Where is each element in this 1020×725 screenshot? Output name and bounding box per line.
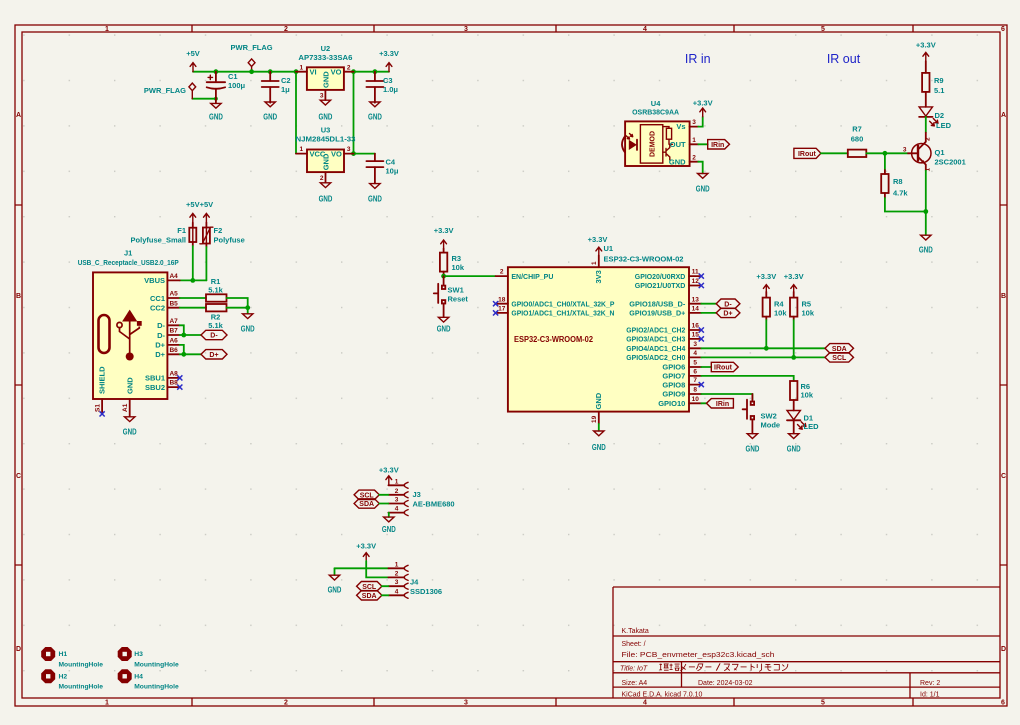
svg-text:4: 4 <box>643 700 647 707</box>
pin A5 CC1 <box>167 297 179 299</box>
ground below U4 <box>696 174 710 194</box>
svg-text:+3.3V: +3.3V <box>916 41 936 50</box>
pin 6 GPIO7 <box>689 375 701 377</box>
svg-text:GND: GND <box>263 113 277 122</box>
pin 2 EN/CHIP_PU <box>496 275 508 277</box>
svg-text:3: 3 <box>692 119 696 126</box>
svg-text:GND: GND <box>787 445 801 454</box>
svg-text:SBU1: SBU1 <box>145 374 165 383</box>
wire IRout label to R7 <box>821 152 848 154</box>
pin 3 GND <box>324 90 326 100</box>
no-connect X GPIO0 <box>493 301 498 306</box>
pin 2 GND <box>690 161 699 163</box>
svg-text:5.1k: 5.1k <box>208 285 223 294</box>
global label SCL (esp side) <box>825 353 854 362</box>
svg-text:GND: GND <box>746 445 760 454</box>
wire R4 down to SDA <box>765 320 767 348</box>
svg-text:VI: VI <box>310 68 317 77</box>
global label SCL (J4) <box>357 582 382 591</box>
CONNECTORS <box>328 466 455 601</box>
POWER <box>144 43 399 204</box>
power symbol +3.3V above R9 <box>916 41 936 62</box>
svg-text:IRin: IRin <box>711 142 724 149</box>
svg-text:LED: LED <box>936 121 952 130</box>
svg-text:GPIO7: GPIO7 <box>662 372 685 381</box>
svg-text:LED: LED <box>804 422 820 431</box>
pin 3 VO <box>344 153 354 155</box>
wire GPIO6 to IRout label <box>701 366 711 368</box>
svg-text:GPIO6: GPIO6 <box>662 363 685 372</box>
svg-text:+3.3V: +3.3V <box>379 49 399 58</box>
svg-text:D-: D- <box>724 301 732 308</box>
wire vertical to U3 VCC <box>295 72 297 154</box>
svg-text:GND: GND <box>209 113 223 122</box>
left ticks <box>15 205 22 565</box>
connector J1 USB_C_Receptacle_USB2.0_16P <box>78 249 183 417</box>
svg-text:1: 1 <box>395 561 399 568</box>
pin S1 SHIELD bottom <box>101 399 103 414</box>
svg-text:SCL: SCL <box>832 355 847 362</box>
svg-text:+5V: +5V <box>186 200 200 209</box>
power flag PWR_FLAG top <box>231 43 273 72</box>
global label D- (esp side) <box>716 299 740 308</box>
svg-text:12: 12 <box>692 278 700 285</box>
svg-text:GPIO2/ADC1_CH2: GPIO2/ADC1_CH2 <box>626 326 685 335</box>
pin 1 VI <box>296 71 307 73</box>
svg-text:H4: H4 <box>134 674 143 681</box>
svg-text:680: 680 <box>851 135 864 144</box>
pin 18 GPIO0 <box>496 303 508 305</box>
power symbol +5V above F2 <box>200 200 214 223</box>
global label SDA (J3) <box>354 499 379 508</box>
katakana コ <box>774 664 780 670</box>
wire VBUS <box>180 279 207 281</box>
svg-text:3V3: 3V3 <box>594 270 603 283</box>
pin B5 CC2 <box>167 307 179 309</box>
wire +3.3V down to J4 pin2 <box>366 561 388 577</box>
pin 1 <box>388 484 404 486</box>
svg-text:3: 3 <box>903 146 907 153</box>
svg-text:GND: GND <box>322 153 331 170</box>
svg-text:3: 3 <box>693 341 697 348</box>
svg-text:ESP32-C3-WROOM-02: ESP32-C3-WROOM-02 <box>514 335 594 344</box>
svg-text:Id: 1/1: Id: 1/1 <box>920 692 940 699</box>
junction R3/EN/SW1 <box>441 274 446 279</box>
svg-text:+5V: +5V <box>200 200 214 209</box>
svg-text:5.1k: 5.1k <box>208 321 223 330</box>
wire D+ A6 to B6 <box>180 345 201 354</box>
regulator U2 <box>296 44 354 100</box>
svg-text:File: PCB_envmeter_esp32c3.kic: File: PCB_envmeter_esp32c3.kicad_sch <box>622 652 775 659</box>
resistor R2 <box>206 304 227 330</box>
no-connect X on SBU2 <box>177 385 182 390</box>
svg-text:+3.3V: +3.3V <box>784 272 804 281</box>
pin 17 GPIO1 <box>496 312 508 314</box>
wire CC2 to R2 <box>180 307 206 309</box>
svg-text:2: 2 <box>925 137 932 141</box>
svg-text:IRout: IRout <box>798 151 817 158</box>
svg-text:Date: 2024-03-02: Date: 2024-03-02 <box>698 680 753 687</box>
svg-text:3: 3 <box>395 579 399 586</box>
svg-text:R2: R2 <box>211 312 221 321</box>
svg-text:A4: A4 <box>169 273 178 280</box>
IROUT <box>0 0 1 1</box>
pin 12 GPIO21/U0TXD <box>689 285 701 287</box>
pin 5 GPIO6 <box>689 366 701 368</box>
USB <box>78 200 255 437</box>
svg-text:Vs: Vs <box>676 122 685 131</box>
pin 2 GND <box>325 172 327 183</box>
svg-text:J1: J1 <box>124 249 132 258</box>
power symbol +3.3V above J3 <box>379 466 399 486</box>
svg-text:A8: A8 <box>169 371 178 378</box>
wire J4 pin1 to gnd <box>335 567 389 569</box>
wire GPIO19 to D+ <box>701 312 716 314</box>
wire J3 pin4 to gnd <box>388 513 390 517</box>
ground below C2 <box>263 102 277 122</box>
svg-text:1μ: 1μ <box>281 85 290 94</box>
svg-text:19: 19 <box>591 415 598 423</box>
svg-text:GND: GND <box>123 428 137 437</box>
wire GPIO4 to SDA label <box>701 347 825 349</box>
svg-text:5: 5 <box>693 360 697 367</box>
svg-text:R4: R4 <box>774 300 784 309</box>
svg-text:F2: F2 <box>214 226 223 235</box>
svg-text:GPIO8: GPIO8 <box>662 380 685 389</box>
svg-text:B8: B8 <box>169 380 178 387</box>
wire F2 down to VBUS <box>205 247 207 280</box>
resistor R7 <box>848 125 867 158</box>
svg-text:5.1: 5.1 <box>934 86 944 95</box>
pin B6 D+ <box>167 353 179 355</box>
pin B7 D- <box>167 334 179 336</box>
no-connect X on SBU1 <box>177 375 182 380</box>
svg-text:D+: D+ <box>155 350 165 359</box>
slash <box>716 663 720 670</box>
wire vertical U2 VO to U3 VO <box>353 72 355 154</box>
pin 10 GPIO10 <box>689 402 701 404</box>
svg-text:MountingHole: MountingHole <box>59 684 104 691</box>
svg-text:Polyfuse: Polyfuse <box>214 236 245 245</box>
svg-text:1: 1 <box>395 478 399 485</box>
svg-text:GND: GND <box>368 113 382 122</box>
junction D- <box>181 333 186 338</box>
switch SW1 Reset <box>434 276 469 317</box>
junction at C1 gnd node <box>214 97 218 101</box>
pin A7 D- <box>167 324 179 326</box>
fuse F2 <box>200 223 245 248</box>
usb connector stadium glyph <box>99 315 110 353</box>
LED D2 <box>919 107 951 130</box>
wire D- A7 to B7 <box>180 325 201 335</box>
ground below C3 <box>368 102 382 122</box>
pin A6 D+ <box>167 344 179 346</box>
svg-text:H3: H3 <box>134 651 143 658</box>
pin 3 GPIO4/ADC1_CH4 <box>689 347 701 349</box>
svg-text:A: A <box>16 112 21 119</box>
svg-text:GND: GND <box>669 157 686 166</box>
pin 2 <box>388 576 404 578</box>
svg-text:10k: 10k <box>802 308 815 317</box>
global label IRout (esp side) <box>711 362 738 371</box>
junction at +5V/C1 <box>214 69 219 74</box>
svg-text:2: 2 <box>284 26 288 33</box>
svg-text:CC2: CC2 <box>150 304 165 313</box>
svg-text:GND: GND <box>437 325 451 334</box>
svg-text:Title: IoT: Title: IoT <box>620 665 648 672</box>
pin 1 <box>388 567 404 569</box>
pin 3 Vs <box>690 126 699 128</box>
connector J3 AE-BME680 <box>388 478 454 515</box>
svg-text:GND: GND <box>696 185 710 194</box>
capacitor C4 <box>366 154 398 184</box>
svg-text:D-: D- <box>157 331 165 340</box>
svg-text:+3.3V: +3.3V <box>356 542 376 551</box>
svg-text:S1: S1 <box>94 404 101 412</box>
junction at U2 VO <box>351 69 356 74</box>
svg-text:2: 2 <box>395 570 399 577</box>
kanji 環 <box>659 664 668 671</box>
wire U3 VO to C4 <box>354 153 375 155</box>
svg-text:PWR_FLAG: PWR_FLAG <box>144 86 186 95</box>
kanji 境 <box>670 664 680 671</box>
svg-text:D1: D1 <box>804 414 814 423</box>
svg-text:GND: GND <box>241 325 255 334</box>
svg-text:8: 8 <box>693 387 697 394</box>
ground below Q1 <box>919 235 933 254</box>
svg-text:18: 18 <box>498 296 506 303</box>
top ticks <box>192 25 913 32</box>
svg-text:GND: GND <box>319 113 333 122</box>
svg-text:+3.3V: +3.3V <box>756 272 776 281</box>
svg-text:Sheet: /: Sheet: / <box>622 641 646 648</box>
svg-text:6: 6 <box>1001 26 1005 33</box>
svg-text:J3: J3 <box>413 490 421 499</box>
pin 2 <box>388 494 404 496</box>
junction at C3 <box>373 69 378 74</box>
katakana ン <box>782 664 788 671</box>
svg-text:GND: GND <box>919 246 933 255</box>
svg-text:1: 1 <box>299 146 303 153</box>
svg-text:MountingHole: MountingHole <box>134 684 179 691</box>
no-connect X on S1 <box>100 411 105 416</box>
katakana ス <box>724 664 730 671</box>
junction R2/gnd <box>245 305 250 310</box>
pin B8 SBU2 <box>167 386 179 388</box>
junction emitter/R8 <box>923 209 928 214</box>
svg-text:2SC2001: 2SC2001 <box>935 158 966 167</box>
svg-text:D-: D- <box>157 321 165 330</box>
transistor Q1 2SC2001 <box>903 133 966 172</box>
svg-text:B5: B5 <box>169 300 178 307</box>
pin 4 GPIO5/ADC2_CH0 <box>689 356 701 358</box>
wire GPIO5 to SCL label <box>701 356 825 358</box>
global label SDA (J4) <box>357 591 382 600</box>
capacitor C1 <box>207 72 246 99</box>
global label IRin (U4 side) <box>708 140 730 149</box>
power symbol +3.3V above J4 <box>356 542 376 562</box>
svg-text:1: 1 <box>105 700 109 707</box>
svg-text:GPIO19/USB_D+: GPIO19/USB_D+ <box>629 309 686 318</box>
svg-text:SHIELD: SHIELD <box>97 366 106 394</box>
svg-text:1: 1 <box>591 261 598 265</box>
svg-text:1: 1 <box>105 26 109 33</box>
svg-text:EN/CHIP_PU: EN/CHIP_PU <box>511 272 553 281</box>
global label D- (usb side) <box>201 330 227 339</box>
svg-text:ESP32-C3-WROOM-02: ESP32-C3-WROOM-02 <box>604 254 684 263</box>
svg-text:GND: GND <box>368 195 382 204</box>
wire GPIO9 to SW2 <box>701 394 752 400</box>
ground below R1 R2 <box>241 308 255 334</box>
svg-text:D2: D2 <box>935 111 945 120</box>
svg-text:D+: D+ <box>209 352 218 359</box>
power symbol +3.3V top <box>379 49 399 72</box>
capacitor C3 <box>366 72 398 103</box>
svg-text:SW2: SW2 <box>761 412 777 421</box>
resistor R6 <box>790 381 814 411</box>
pin 3 <box>388 503 404 505</box>
ground below SW2 <box>746 434 760 454</box>
svg-text:GND: GND <box>328 586 342 595</box>
pin 11 GPIO20/U0RXD <box>689 275 701 277</box>
svg-text:NJM2845DL1-33: NJM2845DL1-33 <box>296 134 356 143</box>
internal transistor <box>663 144 673 160</box>
svg-text:SDA: SDA <box>362 593 377 600</box>
wire PWR_FLAG2 to C1 gnd node <box>192 98 216 100</box>
wire SCL to J4 pin3 <box>382 585 389 587</box>
wire D2 to Q1 collector <box>925 117 927 133</box>
svg-text:OUT: OUT <box>670 140 686 149</box>
svg-text:A6: A6 <box>169 338 178 345</box>
connector J4 SSD1306 <box>388 561 442 598</box>
svg-text:R3: R3 <box>452 254 462 263</box>
wire R1 to gnd column <box>227 298 248 308</box>
pin A8 SBU1 <box>167 377 179 379</box>
pin 1 3V3 top <box>598 255 600 267</box>
svg-text:4: 4 <box>693 350 697 357</box>
svg-text:10k: 10k <box>774 308 787 317</box>
svg-text:F1: F1 <box>177 226 186 235</box>
svg-text:A1: A1 <box>122 403 129 412</box>
pin 13 GPIO18/USB_D- <box>689 303 701 305</box>
svg-text:Mode: Mode <box>761 420 781 429</box>
wire R2 to gnd column <box>227 307 248 309</box>
svg-text:Rev: 2: Rev: 2 <box>920 680 940 687</box>
fuse F1 <box>131 223 197 247</box>
junction F1/VBUS <box>190 278 195 283</box>
svg-text:USB_C_Receptacle_USB2.0_16P: USB_C_Receptacle_USB2.0_16P <box>78 258 179 267</box>
capacitor C2 <box>262 72 291 103</box>
pin 3 <box>388 585 404 587</box>
svg-text:10k: 10k <box>801 390 814 399</box>
power symbol +3.3V above R4 <box>756 272 776 292</box>
svg-text:Size: A4: Size: A4 <box>622 680 648 687</box>
svg-text:U2: U2 <box>321 44 331 53</box>
wire SCL to J3 pin2 <box>379 494 388 496</box>
svg-text:OSRB38C9AA: OSRB38C9AA <box>632 107 680 116</box>
global label IRout (Q1 side) <box>794 148 821 158</box>
svg-text:5: 5 <box>821 26 825 33</box>
wire R3 to EN <box>444 275 496 277</box>
svg-text:6: 6 <box>1001 700 1005 707</box>
katakana ー <box>741 666 747 668</box>
ground below C4 <box>368 184 382 204</box>
svg-text:SBU2: SBU2 <box>145 383 165 392</box>
mounting hole H2 <box>41 669 103 690</box>
katakana ト <box>751 664 755 671</box>
svg-text:GND: GND <box>319 195 333 204</box>
svg-text:B: B <box>16 293 21 300</box>
svg-text:D: D <box>16 646 21 653</box>
svg-text:AE-BME680: AE-BME680 <box>413 499 455 508</box>
mounting hole H4 <box>118 669 179 690</box>
svg-text:C2: C2 <box>281 76 291 85</box>
svg-text:SDA: SDA <box>359 501 374 508</box>
svg-text:17: 17 <box>498 306 506 313</box>
svg-text:4: 4 <box>643 26 647 33</box>
lens arc <box>622 136 625 153</box>
svg-text:IRin: IRin <box>716 401 729 408</box>
power symbol +5V above F1 <box>186 200 200 223</box>
LED D1 <box>787 411 819 434</box>
svg-text:3: 3 <box>320 93 324 100</box>
power symbol +3.3V above R5 <box>784 272 804 292</box>
resistor R4 <box>763 292 788 320</box>
ground below J1 <box>123 417 137 437</box>
ground below J3 <box>382 517 396 534</box>
svg-text:K.Takata: K.Takata <box>622 628 649 635</box>
pin 19 GND bottom <box>598 412 600 424</box>
svg-text:CC1: CC1 <box>150 294 165 303</box>
svg-text:J4: J4 <box>410 578 419 587</box>
svg-text:7: 7 <box>693 377 697 384</box>
svg-text:2: 2 <box>500 269 504 276</box>
wire GPIO18 to D- <box>701 303 716 305</box>
svg-text:A: A <box>1001 112 1006 119</box>
pin 15 GPIO3/ADC1_CH3 <box>689 338 701 340</box>
svg-text:GND: GND <box>594 392 603 409</box>
svg-text:SW1: SW1 <box>448 286 464 295</box>
global label D+ (esp side) <box>716 308 740 317</box>
svg-text:B6: B6 <box>169 347 178 354</box>
svg-text:PWR_FLAG: PWR_FLAG <box>231 43 273 52</box>
svg-text:MountingHole: MountingHole <box>134 661 179 668</box>
power symbol +3.3V above U1 <box>588 235 608 255</box>
internal resistor <box>663 127 669 145</box>
ESP32 <box>434 226 704 452</box>
power symbol +3.3V above R3 <box>434 226 454 249</box>
photodiode glyph <box>629 140 637 150</box>
pin 7 GPIO8 <box>689 384 701 386</box>
junction at PWR_FLAG <box>249 69 254 74</box>
global label IRin (esp side) <box>707 399 734 408</box>
svg-text:D+: D+ <box>155 341 165 350</box>
svg-text:U1: U1 <box>604 244 614 253</box>
junction R7/R8 <box>883 151 888 156</box>
svg-text:U3: U3 <box>321 126 331 135</box>
svg-text:SSD1306: SSD1306 <box>410 587 442 596</box>
usb trident glyph <box>117 311 142 361</box>
right ticks <box>1000 205 1007 565</box>
svg-text:2: 2 <box>692 154 696 161</box>
junction at U2 VI <box>294 69 299 74</box>
svg-text:GPIO4/ADC1_CH4: GPIO4/ADC1_CH4 <box>626 344 686 353</box>
svg-text:IR out: IR out <box>827 52 861 66</box>
svg-text:C3: C3 <box>383 76 393 85</box>
svg-text:GPIO10: GPIO10 <box>658 399 685 408</box>
svg-text:AP7333-33SA6: AP7333-33SA6 <box>298 53 352 62</box>
svg-text:GPIO21/U0TXD: GPIO21/U0TXD <box>635 281 686 290</box>
